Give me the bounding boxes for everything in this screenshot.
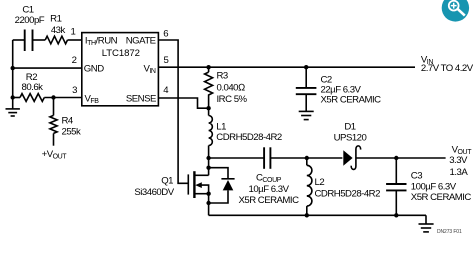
svg-text:DN273 F01: DN273 F01 — [437, 229, 462, 235]
node cathode jog — [206, 166, 210, 170]
svg-text:R3: R3 — [217, 70, 228, 81]
svg-text:3: 3 — [72, 85, 77, 96]
wire bottom rail — [209, 214, 426, 216]
inductor L2 — [307, 158, 312, 215]
Q1 arrow — [195, 182, 202, 188]
capacitor C3 — [386, 158, 406, 215]
svg-text:LTC1872: LTC1872 — [102, 48, 140, 59]
zoom button — [442, 0, 469, 22]
svg-text:D1: D1 — [344, 121, 355, 132]
capacitor CCOUP — [264, 147, 270, 169]
ground C2 — [299, 111, 314, 119]
capacitor C2 — [296, 67, 317, 111]
node C3 bottom — [394, 213, 398, 217]
svg-text:43k: 43k — [51, 25, 66, 36]
svg-text:5: 5 — [164, 55, 169, 66]
resistor R2 — [20, 94, 44, 102]
svg-text:NGATE: NGATE — [126, 35, 156, 46]
wire pin5 VIN rail — [158, 66, 415, 68]
diode body of Q1 — [209, 168, 235, 203]
svg-text:0.040Ω: 0.040Ω — [217, 83, 246, 94]
wire pin4 SENSE — [158, 98, 208, 108]
wire D1 to VOUT — [356, 157, 446, 159]
svg-text:L1: L1 — [216, 122, 226, 133]
node R4 top — [51, 95, 55, 99]
wire pin3 left lead — [13, 97, 20, 99]
svg-text:UPS120: UPS120 — [334, 133, 367, 144]
node C2 top — [304, 65, 308, 69]
ground left — [6, 109, 20, 116]
wire left rail — [12, 40, 14, 109]
wire C1 left lead — [13, 39, 25, 41]
svg-text:Q1: Q1 — [161, 176, 173, 187]
wire R1 to pin1 — [68, 39, 82, 41]
svg-text:C1: C1 — [22, 5, 33, 16]
svg-text:CDRH5D28-4R2: CDRH5D28-4R2 — [315, 189, 381, 200]
wire R2 to pin3 — [44, 97, 82, 99]
svg-text:R1: R1 — [50, 13, 61, 24]
wire pin6 NGATE to gate — [158, 40, 188, 183]
node SENSE-L1 — [206, 106, 210, 110]
svg-text:1: 1 — [70, 26, 75, 37]
resistor R4 — [50, 98, 57, 146]
svg-text:SENSE: SENSE — [126, 94, 156, 105]
svg-text:2.7V TO 4.2V: 2.7V TO 4.2V — [421, 63, 474, 74]
node pin3-rail — [11, 95, 15, 99]
svg-text:255k: 255k — [62, 126, 82, 137]
node C3 top — [394, 156, 398, 160]
wire coupling rail — [209, 157, 265, 159]
resistor R1 — [45, 36, 67, 44]
svg-text:C3: C3 — [411, 171, 422, 182]
svg-text:80.6k: 80.6k — [22, 82, 44, 93]
inductor L1 — [209, 108, 213, 158]
svg-text:R4: R4 — [62, 116, 74, 127]
svg-text:2: 2 — [72, 55, 77, 66]
transistor Q1 Si3460DV — [188, 158, 208, 215]
svg-text:Si3460DV: Si3460DV — [134, 187, 174, 198]
node L2 top — [305, 156, 309, 160]
svg-text:1.3A: 1.3A — [450, 167, 469, 178]
node source — [206, 192, 210, 196]
svg-text:10µF 6.3V: 10µF 6.3V — [249, 184, 290, 195]
svg-text:3.3V: 3.3V — [449, 155, 468, 166]
diode D1 UPS120 — [343, 146, 360, 170]
resistor R3 — [205, 67, 213, 108]
svg-text:X5R CERAMIC: X5R CERAMIC — [321, 94, 382, 105]
svg-text:X5R CERAMIC: X5R CERAMIC — [238, 195, 299, 206]
node L2 bottom — [305, 213, 309, 217]
node drain — [206, 156, 210, 160]
op-amp U1 LTC1872 box — [82, 33, 159, 106]
svg-text:100µF 6.3V: 100µF 6.3V — [411, 181, 457, 192]
svg-text:2200pF: 2200pF — [15, 15, 45, 26]
svg-text:GND: GND — [84, 64, 104, 75]
wire pin2 GND — [13, 67, 82, 69]
ground right — [419, 215, 434, 232]
svg-text:IRC 5%: IRC 5% — [217, 94, 248, 105]
svg-text:X5R CERAMIC: X5R CERAMIC — [411, 192, 472, 203]
svg-text:6: 6 — [163, 28, 168, 39]
svg-text:L2: L2 — [315, 177, 325, 188]
node pin2-rail — [11, 66, 15, 70]
wire CCOUP to D1 — [270, 157, 342, 159]
node anode jog — [206, 201, 210, 205]
wire C1 to R1 — [33, 39, 46, 41]
node R3 top — [206, 65, 210, 69]
svg-text:CDRH5D28-4R2: CDRH5D28-4R2 — [216, 132, 282, 143]
capacitor C1 — [25, 30, 33, 52]
